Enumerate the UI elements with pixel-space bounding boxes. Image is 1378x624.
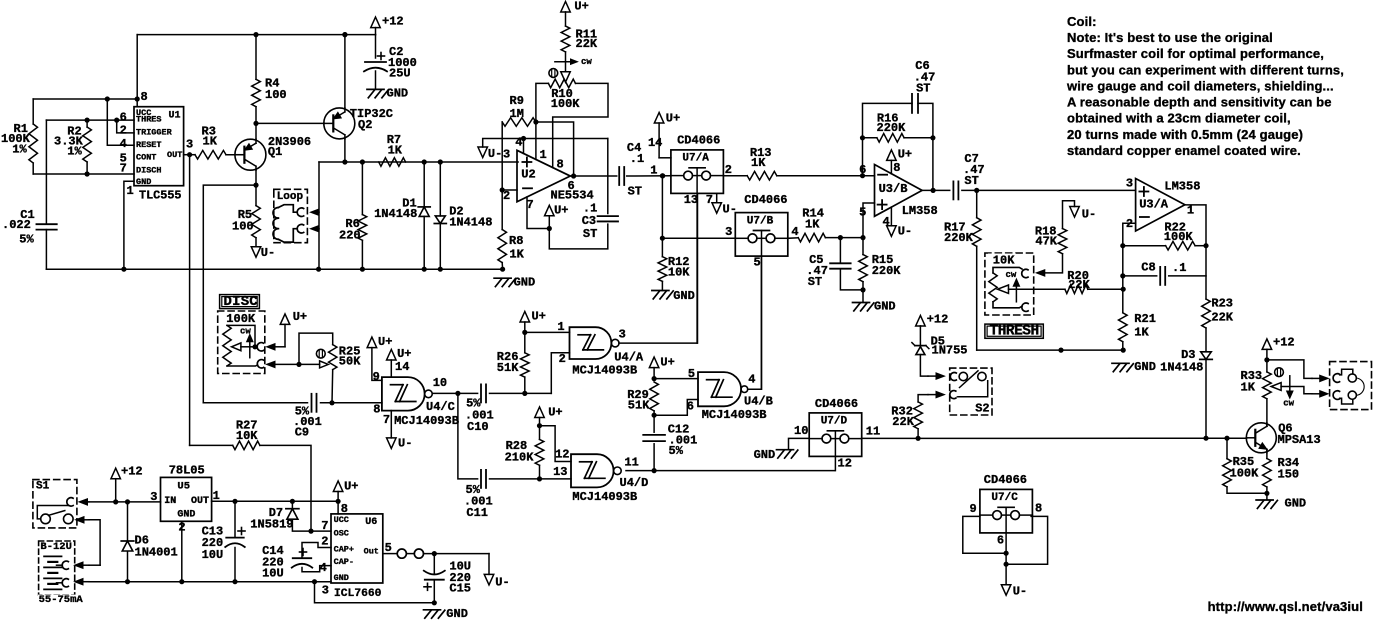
svg-text:U-: U- [398, 437, 412, 451]
svg-text:U+: U+ [293, 310, 307, 324]
svg-text:Note: It's best to use the ori: Note: It's best to use the original [1067, 30, 1273, 45]
svg-text:U-: U- [261, 246, 275, 260]
svg-text:LM358: LM358 [902, 204, 938, 218]
svg-text:6: 6 [997, 533, 1004, 547]
svg-text:cw: cw [581, 57, 592, 67]
svg-text:4: 4 [748, 372, 755, 386]
svg-text:U+: U+ [666, 111, 680, 125]
svg-text:U6: U6 [365, 517, 377, 528]
svg-text:U3/A: U3/A [1139, 198, 1169, 212]
svg-text:11: 11 [624, 456, 638, 470]
svg-text:U+: U+ [554, 204, 568, 218]
svg-text:10K: 10K [993, 253, 1015, 267]
svg-text:GND: GND [754, 448, 776, 462]
svg-text:1: 1 [650, 164, 657, 178]
svg-text:U5: U5 [177, 481, 190, 493]
svg-text:3: 3 [150, 490, 157, 504]
svg-text:U-: U- [1013, 585, 1027, 599]
svg-text:5: 5 [688, 367, 695, 381]
svg-text:8: 8 [141, 90, 148, 104]
svg-text:THRES: THRES [136, 115, 162, 125]
svg-text:8: 8 [893, 161, 900, 175]
svg-text:220K: 220K [877, 121, 907, 135]
svg-text:U-: U- [495, 575, 509, 589]
svg-text:20 turns made with 0.5mm (24 g: 20 turns made with 0.5mm (24 gauge) [1067, 127, 1303, 142]
svg-text:10K: 10K [668, 265, 690, 279]
svg-text:U+: U+ [574, 0, 588, 13]
svg-text:1N5819: 1N5819 [250, 518, 293, 532]
svg-text:6: 6 [120, 111, 127, 125]
svg-text:1N4001: 1N4001 [135, 545, 178, 559]
svg-text:wire gauge and coil diameters,: wire gauge and coil diameters, shielding… [1066, 79, 1334, 94]
svg-text:U4/A: U4/A [614, 350, 644, 364]
svg-text:2: 2 [503, 189, 510, 203]
svg-text:1K: 1K [1241, 380, 1256, 394]
svg-text:8: 8 [341, 502, 348, 516]
svg-text:22K: 22K [1068, 278, 1090, 292]
svg-text:THRESH: THRESH [990, 324, 1039, 340]
svg-text:1K: 1K [509, 247, 524, 261]
svg-text:12: 12 [838, 456, 852, 470]
svg-text:UCC: UCC [334, 515, 349, 525]
svg-text:1%: 1% [67, 145, 82, 159]
svg-text:LM358: LM358 [1164, 180, 1200, 194]
svg-text:GND: GND [177, 509, 195, 520]
svg-text:Out: Out [364, 547, 379, 557]
svg-text:GND: GND [514, 275, 536, 289]
svg-text:U7/B: U7/B [747, 215, 774, 227]
svg-text:100K: 100K [1164, 230, 1194, 244]
svg-text:1K: 1K [751, 156, 766, 170]
svg-text:DISC: DISC [224, 294, 259, 310]
svg-text:25U: 25U [389, 67, 411, 81]
svg-text:C11: C11 [466, 506, 488, 520]
svg-text:U3/B: U3/B [879, 182, 908, 196]
svg-text:RESET: RESET [136, 140, 162, 150]
svg-text:GND: GND [446, 607, 468, 621]
svg-text:ST: ST [964, 174, 978, 188]
svg-text:1K: 1K [388, 144, 403, 158]
svg-text:GND: GND [673, 289, 695, 303]
svg-text:1K: 1K [805, 218, 820, 232]
svg-text:ST: ST [628, 185, 642, 199]
svg-text:7: 7 [527, 198, 534, 212]
svg-text:1K: 1K [203, 135, 218, 149]
svg-text:C15: C15 [449, 581, 471, 595]
svg-text:U7/A: U7/A [682, 153, 709, 165]
svg-text:100: 100 [232, 220, 254, 234]
svg-text:150: 150 [1278, 468, 1300, 482]
svg-text:1N4148: 1N4148 [374, 207, 417, 221]
svg-text:U4/B: U4/B [744, 395, 773, 409]
svg-text:4: 4 [883, 215, 890, 229]
svg-text:51K: 51K [628, 399, 650, 413]
svg-text:U+: U+ [397, 347, 411, 361]
svg-text:C8: C8 [1141, 260, 1155, 274]
svg-text:Q2: Q2 [358, 118, 372, 132]
svg-text:7: 7 [120, 162, 127, 176]
svg-text:GND: GND [136, 177, 151, 187]
svg-text:5%: 5% [669, 444, 684, 458]
svg-text:U-: U- [1082, 208, 1096, 222]
svg-text:CD4066: CD4066 [815, 397, 858, 411]
svg-text:22K: 22K [1211, 310, 1233, 324]
svg-text:CD4066: CD4066 [677, 134, 720, 148]
svg-text:CD4066: CD4066 [744, 193, 787, 207]
svg-text:R23: R23 [1211, 297, 1233, 311]
svg-text:5: 5 [385, 541, 392, 555]
svg-text:GND: GND [387, 87, 409, 101]
svg-text:9: 9 [373, 370, 380, 384]
svg-text:1M: 1M [510, 107, 524, 121]
svg-text:A reasonable depth and sensiti: A reasonable depth and sensitivity can b… [1067, 95, 1332, 110]
svg-text:R8: R8 [509, 234, 523, 248]
svg-text:10: 10 [433, 376, 447, 390]
svg-text:+12: +12 [1273, 336, 1295, 350]
svg-text:but you can experiment with di: but you can experiment with different tu… [1067, 62, 1344, 77]
svg-text:OUT: OUT [167, 150, 182, 160]
svg-text:2: 2 [725, 163, 732, 177]
svg-text:1: 1 [540, 148, 547, 162]
svg-text:6: 6 [687, 400, 694, 414]
svg-text:U7/C: U7/C [991, 492, 1018, 504]
svg-text:13: 13 [684, 193, 698, 207]
svg-text:GND: GND [1285, 497, 1307, 511]
svg-text:U+: U+ [898, 148, 912, 162]
svg-text:OSC: OSC [334, 528, 349, 538]
svg-text:DISCH: DISCH [136, 165, 162, 175]
svg-text:MCJ14093B: MCJ14093B [572, 363, 637, 377]
svg-text:.022: .022 [2, 218, 31, 232]
svg-text:Loop: Loop [277, 191, 304, 203]
svg-text:4: 4 [791, 225, 798, 239]
svg-text:U2: U2 [521, 168, 535, 182]
svg-text:1: 1 [127, 184, 134, 198]
svg-text:10K: 10K [236, 429, 258, 443]
svg-text:55-75mA: 55-75mA [39, 594, 84, 606]
svg-text:NE5534: NE5534 [551, 188, 594, 202]
svg-text:1K: 1K [1134, 326, 1149, 340]
svg-text:CONT: CONT [136, 152, 156, 162]
svg-text:100: 100 [265, 88, 287, 102]
svg-text:3: 3 [186, 138, 193, 152]
svg-text:1N4148: 1N4148 [1160, 361, 1203, 375]
svg-text:220: 220 [339, 229, 361, 243]
svg-text:cw: cw [1283, 398, 1294, 408]
svg-text:S1: S1 [36, 480, 50, 492]
svg-text:7: 7 [706, 193, 713, 207]
svg-text:8: 8 [557, 158, 564, 172]
svg-text:standard copper enamel coated: standard copper enamel coated wire. [1067, 143, 1301, 158]
svg-text:CAP-: CAP- [334, 557, 354, 567]
svg-text:MCJ14093B: MCJ14093B [394, 414, 459, 428]
svg-text:R9: R9 [510, 94, 524, 108]
svg-text:U4/C: U4/C [426, 400, 455, 414]
svg-text:MCJ14093B: MCJ14093B [572, 490, 637, 504]
svg-text:8: 8 [373, 403, 380, 417]
svg-text:1N4148: 1N4148 [449, 216, 492, 230]
svg-text:U+: U+ [532, 310, 546, 324]
svg-text:4: 4 [320, 561, 327, 575]
svg-text:10U: 10U [202, 548, 224, 562]
svg-text:3: 3 [725, 225, 732, 239]
svg-text:100K: 100K [551, 97, 581, 111]
svg-text:ST: ST [808, 275, 822, 289]
svg-text:3: 3 [619, 327, 626, 341]
svg-text:220K: 220K [944, 231, 974, 245]
svg-text:11: 11 [866, 424, 880, 438]
svg-text:U7/D: U7/D [821, 416, 848, 428]
svg-text:MCJ14093B: MCJ14093B [702, 408, 767, 422]
svg-text:U-: U- [488, 147, 502, 161]
svg-text:1%: 1% [12, 143, 27, 157]
svg-text:13: 13 [553, 465, 567, 479]
svg-text:U-: U- [898, 224, 912, 238]
svg-text:2: 2 [120, 124, 127, 138]
svg-text:ICL7660: ICL7660 [334, 588, 382, 600]
svg-text:C9: C9 [295, 426, 309, 440]
svg-text:2: 2 [321, 535, 328, 549]
svg-text:14: 14 [395, 360, 409, 374]
svg-text:+12: +12 [927, 313, 949, 327]
svg-text:47K: 47K [1035, 235, 1057, 249]
svg-text:ST: ST [583, 227, 597, 241]
svg-text:3: 3 [322, 583, 329, 597]
svg-text:12: 12 [555, 448, 569, 462]
svg-text:.1: .1 [630, 152, 644, 166]
svg-text:B-12U: B-12U [40, 541, 72, 553]
svg-text:1: 1 [557, 320, 564, 334]
svg-text:220K: 220K [872, 264, 902, 278]
svg-text:9: 9 [969, 502, 976, 516]
svg-text:14: 14 [648, 136, 662, 150]
svg-text:U4/D: U4/D [620, 476, 649, 490]
svg-text:.1: .1 [1172, 261, 1186, 275]
svg-text:100K: 100K [1230, 467, 1260, 481]
svg-text:U+: U+ [344, 480, 358, 494]
svg-text:7: 7 [321, 519, 328, 533]
svg-text:U+: U+ [548, 406, 562, 420]
svg-text:CD4066: CD4066 [984, 473, 1027, 487]
svg-text:TRIGGER: TRIGGER [136, 128, 173, 138]
svg-text:U+: U+ [378, 335, 392, 349]
svg-text:C10: C10 [467, 420, 489, 434]
svg-text:210K: 210K [505, 450, 535, 464]
svg-text:+12: +12 [382, 15, 404, 29]
svg-text:obtained with a 23cm diameter: obtained with a 23cm diameter coil, [1067, 111, 1291, 126]
svg-text:3: 3 [1126, 176, 1133, 190]
svg-text:22K: 22K [576, 37, 598, 51]
svg-text:10: 10 [794, 424, 808, 438]
svg-text:78L05: 78L05 [169, 464, 205, 478]
svg-text:ST: ST [916, 82, 930, 96]
svg-text:4: 4 [120, 137, 127, 151]
svg-text:U1: U1 [169, 110, 181, 121]
svg-text:cw: cw [240, 327, 251, 337]
svg-text:U+: U+ [660, 356, 674, 370]
svg-text:R21: R21 [1134, 312, 1156, 326]
svg-text:10U: 10U [262, 566, 284, 580]
svg-text:cw: cw [1006, 270, 1017, 280]
svg-text:OUT: OUT [191, 496, 209, 507]
svg-text:GND: GND [1134, 360, 1156, 374]
svg-text:GND: GND [334, 573, 349, 583]
svg-text:2: 2 [559, 352, 566, 366]
svg-text:7: 7 [383, 413, 390, 427]
svg-text:4: 4 [515, 135, 522, 149]
svg-text:TLC555: TLC555 [139, 189, 181, 203]
svg-text:S2: S2 [975, 401, 989, 415]
svg-text:IN: IN [164, 496, 176, 507]
svg-text:5%: 5% [19, 232, 34, 246]
svg-text:100K: 100K [226, 312, 256, 326]
svg-text:Surfmaster coil for optimal pe: Surfmaster coil for optimal performance, [1067, 46, 1324, 61]
svg-text:Coil:: Coil: [1067, 14, 1097, 29]
svg-text:http://www.qsl.net/va3iul: http://www.qsl.net/va3iul [1208, 599, 1363, 614]
svg-text:51K: 51K [497, 361, 519, 375]
svg-text:8: 8 [1035, 501, 1042, 515]
svg-text:50K: 50K [339, 354, 361, 368]
svg-text:1N755: 1N755 [932, 343, 968, 357]
svg-text:3: 3 [503, 148, 510, 162]
svg-text:CAP+: CAP+ [334, 545, 354, 555]
svg-text:GND: GND [874, 300, 896, 314]
svg-text:5: 5 [754, 256, 761, 270]
svg-text:22K: 22K [892, 415, 914, 429]
svg-text:Q1: Q1 [268, 145, 282, 159]
svg-text:+12: +12 [121, 465, 143, 479]
svg-text:MPSA13: MPSA13 [1278, 433, 1321, 447]
